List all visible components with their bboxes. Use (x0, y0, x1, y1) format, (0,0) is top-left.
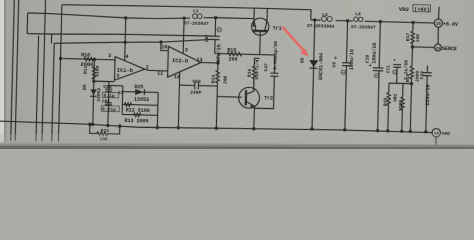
svg-text:3: 3 (108, 53, 111, 59)
svg-text:+: + (393, 59, 396, 64)
node R10 left (59, 57, 61, 59)
svg-text:C63: C63 (192, 78, 201, 84)
wire IC2 pin12 vertical (178, 72, 179, 128)
svg-text:C10: C10 (365, 54, 371, 63)
svg-text:47u/25: 47u/25 (216, 44, 222, 62)
node W6 crossing (124, 41, 126, 43)
svg-text:R18: R18 (405, 73, 411, 82)
resistor R17+R18 vertical chain (412, 22, 414, 31)
svg-text:R12 5100: R12 5100 (126, 107, 150, 114)
svg-text:C47: C47 (263, 63, 269, 72)
wire pin10 corner (161, 42, 169, 51)
svg-text:200: 200 (228, 56, 237, 62)
resistor VR2 vertical (400, 83, 405, 131)
terminal +6.0V (434, 19, 442, 27)
svg-text:R17: R17 (405, 32, 411, 41)
svg-text:ERC81-004: ERC81-004 (318, 53, 325, 80)
svg-text:R11: R11 (83, 65, 89, 74)
svg-text:100u/16: 100u/16 (371, 43, 378, 64)
wire vertical V1 left (11, 0, 15, 141)
svg-text:C11: C11 (386, 65, 391, 73)
resistor R14 vertical (216, 70, 220, 83)
svg-text:100: 100 (415, 34, 421, 43)
wire vertical V5 left (50, 34, 52, 43)
wire vertical V3 left (42, 0, 46, 141)
svg-text:1S953: 1S953 (134, 97, 149, 103)
terminal GND (432, 128, 441, 137)
svg-text:C9: C9 (331, 62, 337, 68)
capacitor C8 (214, 18, 216, 36)
right cluster wire row (389, 82, 411, 85)
svg-text:220u/10: 220u/10 (425, 85, 432, 106)
transistor Tr2 (238, 87, 259, 108)
svg-text:13: 13 (196, 57, 202, 63)
svg-text:R16: R16 (246, 68, 252, 77)
wire R15 row (215, 53, 275, 55)
svg-text:0.0022μ/50: 0.0022μ/50 (272, 41, 279, 70)
svg-text:L1: L1 (193, 8, 199, 14)
svg-text:C8+: C8+ (205, 34, 210, 42)
wire IC2 pin3 vertical (182, 18, 185, 54)
svg-text:12: 12 (174, 74, 180, 80)
transistor Tr1 (251, 18, 269, 36)
capacitor C10 vertical (379, 22, 380, 68)
svg-text:D25: D25 (134, 84, 143, 90)
inductor L3 (321, 16, 326, 21)
caps C64 + C61 stack (105, 88, 112, 90)
node pin4 drop on rail (125, 17, 127, 19)
svg-text:4: 4 (125, 54, 128, 60)
resistor R12 row (122, 103, 157, 106)
bottom shadow band (0, 134, 474, 149)
svg-text:ST-203047: ST-203047 (351, 24, 376, 31)
diode D25 (123, 91, 158, 94)
svg-text:100u/16: 100u/16 (349, 49, 356, 70)
svg-text:(+6V): (+6V) (414, 7, 430, 13)
svg-text:16: 16 (436, 23, 442, 27)
svg-text:C61: C61 (102, 98, 111, 104)
svg-text:ST-203384A: ST-203384A (307, 23, 335, 30)
svg-text:5100: 5100 (94, 65, 100, 76)
svg-text:D5: D5 (299, 57, 305, 63)
wire above terminal (438, 7, 441, 19)
svg-text:9100: 9100 (398, 100, 404, 111)
capacitor C9 vertical (347, 21, 348, 63)
svg-text:VR2: VR2 (399, 6, 410, 13)
node pin10 blob (160, 41, 162, 43)
svg-text:20K: 20K (222, 75, 228, 84)
resistor R11 vertical (92, 67, 96, 80)
svg-text:L4: L4 (355, 11, 361, 17)
inductor L1 (192, 14, 197, 19)
svg-text:11: 11 (118, 90, 124, 96)
wire C63 row (179, 84, 194, 86)
wire vertical V6 left (52, 43, 54, 141)
svg-text:3: 3 (185, 47, 188, 53)
svg-text:C34: C34 (419, 71, 425, 80)
capacitor C34 vertical (426, 66, 428, 73)
svg-text:IC2-b: IC2-b (172, 58, 188, 64)
wire supply W6 horizontal (54, 36, 210, 48)
svg-text:L3: L3 (322, 12, 328, 18)
op-amp IC2-b (168, 46, 202, 78)
wire IC2 out pin13 (201, 62, 218, 64)
wire vertical V4 left (36, 36, 39, 141)
wire IC1 out to IC2 pin11 (145, 69, 168, 71)
svg-text:240P: 240P (190, 90, 201, 96)
wire Tr1 base vertical (259, 32, 262, 55)
wire B / +rail horizontal (28, 13, 191, 20)
red annotation arrow (283, 27, 309, 57)
svg-text:Tr2: Tr2 (264, 95, 273, 101)
svg-text:0.1μ: 0.1μ (104, 93, 115, 99)
resistor R16 vertical (252, 58, 256, 91)
svg-text:SENCE: SENCE (442, 46, 457, 52)
wire pin4 vertical (125, 18, 126, 61)
bottom bus (0, 121, 432, 135)
svg-text:+6.0V: +6.0V (443, 21, 458, 27)
svg-text:C64: C64 (103, 84, 112, 90)
capacitor C47 (273, 55, 275, 73)
wire IC1 pin2 input (94, 80, 115, 83)
svg-text:ST-203047: ST-203047 (184, 21, 209, 28)
resistor R15 (227, 52, 242, 56)
svg-text:510-1/4: 510-1/4 (254, 59, 261, 79)
paper background (0, 0, 474, 149)
resistor R72 (90, 123, 120, 135)
svg-text:R10: R10 (81, 52, 90, 58)
wire 124.5 vertical + tie (109, 85, 123, 87)
svg-text:VR2: VR2 (393, 93, 399, 102)
wire vertical V2 left (15, 0, 19, 141)
wire horizontal from V5 (27, 31, 210, 38)
svg-text:Tr1: Tr1 (273, 26, 282, 32)
svg-text:R72: R72 (101, 128, 110, 134)
svg-text:10: 10 (161, 44, 167, 50)
svg-text:0.01μ: 0.01μ (102, 106, 116, 112)
svg-text:2: 2 (117, 73, 120, 79)
svg-text:+: + (334, 56, 337, 62)
wire terminal link (437, 27, 440, 44)
svg-text:23: 23 (436, 47, 441, 51)
resistor R13 row (122, 113, 157, 116)
wire 160 vertical (156, 92, 159, 127)
svg-text:R13 2000: R13 2000 (124, 118, 148, 125)
resistor R19 vertical (386, 83, 391, 131)
wire IC1 pin3 input (61, 58, 115, 59)
svg-text:1: 1 (146, 64, 149, 70)
svg-text:R14: R14 (210, 75, 216, 84)
page edge strip left (0, 0, 4, 149)
diode D5 vertical (312, 20, 315, 129)
svg-text:R19: R19 (383, 97, 389, 106)
svg-text:D6: D6 (82, 84, 88, 90)
op-amp IC1-b (114, 57, 145, 81)
inductor L4 (354, 17, 359, 22)
capacitor C11 (396, 67, 398, 83)
capacitor C63 (194, 81, 196, 89)
resistor R10 (84, 57, 95, 61)
wire A top horizontal (62, 3, 311, 20)
wire 219 vertical chain (217, 54, 219, 71)
wire SENCE (412, 46, 434, 49)
terminal SENCE (434, 44, 441, 51)
wire W2 vertical to R10 (58, 5, 61, 142)
diode D6 (93, 59, 95, 124)
svg-text:11: 11 (157, 71, 163, 77)
svg-text:R15: R15 (227, 47, 236, 53)
wire Tr2 base (217, 96, 242, 99)
